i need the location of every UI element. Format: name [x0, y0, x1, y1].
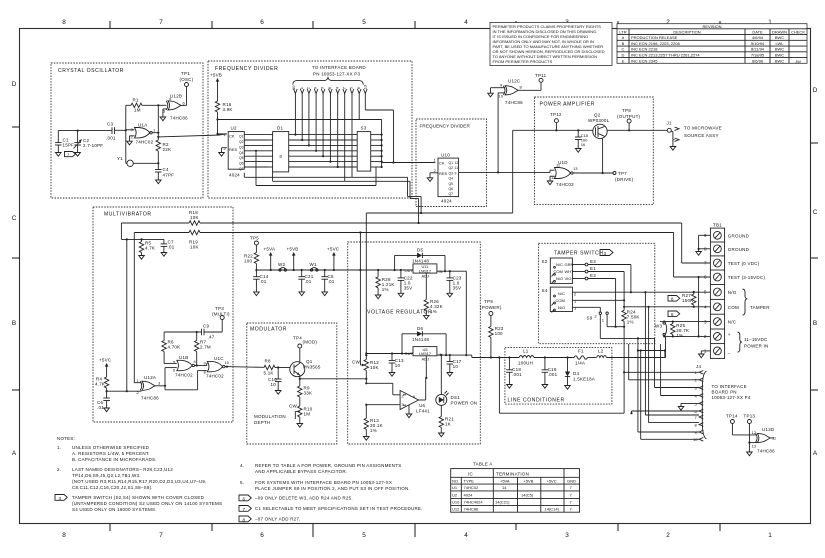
svg-text:2.7-10PF: 2.7-10PF [83, 143, 103, 148]
svg-text:8: 8 [62, 532, 66, 539]
svg-text:14(C14): 14(C14) [545, 507, 560, 512]
svg-text:TO MICROWAVE: TO MICROWAVE [684, 126, 722, 131]
svg-text:+5VB: +5VB [210, 73, 222, 78]
wire R4 node to U12A pin2 [106, 388, 142, 398]
svg-text:1%: 1% [382, 287, 389, 292]
svg-text:LM317: LM317 [419, 351, 432, 356]
svg-text:LWL: LWL [776, 41, 785, 46]
svg-text:DEPTH: DEPTH [254, 420, 270, 425]
MODULATOR section box [247, 323, 337, 444]
svg-text:3: 3 [59, 496, 62, 501]
NOR gate U1D 74HC02 [551, 160, 578, 187]
test point TP5 and R22 [244, 236, 259, 278]
svg-text:COM: COM [556, 298, 565, 303]
svg-text:3.9K: 3.9K [223, 107, 233, 112]
svg-text:Q6: Q6 [449, 187, 454, 191]
bus line TEST 3-15VDC (L-C) with resistor R19 [134, 230, 673, 249]
svg-text:U10: U10 [452, 500, 460, 505]
svg-text:CW: CW [289, 404, 297, 409]
+5V distribution rail [256, 269, 413, 271]
svg-text:2: 2 [666, 532, 670, 539]
svg-text:GND: GND [567, 478, 576, 483]
ground C23 [447, 293, 453, 297]
svg-text:IC: IC [468, 471, 473, 476]
svg-text:Q7: Q7 [239, 167, 244, 171]
wire op-amp pin3 from divider [365, 404, 400, 406]
resistor R13 [364, 405, 383, 437]
svg-text:OUT: OUT [405, 268, 414, 273]
diode D4 TVS [565, 356, 595, 385]
svg-text:74HC02: 74HC02 [556, 182, 574, 187]
test point TP3 [212, 306, 230, 332]
LED DS1 POWER ON [436, 354, 477, 406]
svg-text:(NOT USED R3,R11,R14,R15,R17,: (NOT USED R3,R11,R14,R15,R17,R20,D2,D3,U… [72, 479, 207, 484]
svg-text:W1: W1 [310, 262, 317, 267]
svg-text:11: 11 [455, 166, 459, 170]
svg-text:GRN: GRN [565, 262, 574, 267]
svg-text:4.7K: 4.7K [145, 246, 155, 251]
svg-text:74HC86: 74HC86 [464, 507, 479, 512]
XOR gate U12B 74HC86 [163, 94, 188, 121]
svg-text:3: 3 [565, 532, 569, 539]
svg-text:U1C: U1C [214, 356, 224, 361]
svg-text:B: B [813, 320, 817, 327]
wire U1D output to TP7 node [573, 171, 633, 182]
test point TP13 [744, 414, 758, 453]
svg-text:E1: E1 [590, 266, 596, 271]
svg-text:13: 13 [573, 166, 578, 171]
svg-text:JW: JW [795, 59, 801, 64]
svg-text:13: 13 [362, 84, 367, 89]
svg-text:9: 9 [455, 171, 457, 175]
regulator U5 LM317 [366, 347, 472, 362]
ground op-amp supply [406, 405, 412, 418]
svg-text:TP4: TP4 [293, 336, 302, 341]
wire U1A pin2 to ground [130, 136, 135, 141]
ground C15 [575, 149, 581, 153]
svg-text:U1B: U1B [179, 355, 188, 360]
svg-text:U6: U6 [419, 403, 425, 408]
wire R5 rail down to pin2 net [126, 238, 128, 392]
VOLTAGE REGULATOR section box [348, 242, 481, 444]
wire op-amp output to ADJ node [419, 356, 428, 400]
TABLE A [451, 462, 580, 513]
svg-text:1/4A: 1/4A [575, 361, 585, 366]
svg-text:.001: .001 [548, 372, 558, 377]
wire feedback up to R1 [125, 105, 127, 130]
wire R16 to clock node and pullup rail [216, 112, 382, 168]
jumper S9 [587, 312, 617, 338]
svg-text:N/C: N/C [558, 291, 565, 296]
svg-text:S4: S4 [542, 288, 548, 293]
wire U12B output to TP1 [181, 87, 186, 106]
svg-text:Q1: Q1 [239, 135, 244, 139]
svg-text:LF441: LF441 [416, 409, 430, 414]
svg-text:Q1: Q1 [449, 161, 454, 165]
svg-text:TP14,D6,S9,J5,Q2,L2,TB1,W3.: TP14,D6,S9,J5,Q2,L2,TB1,W3. [72, 473, 141, 478]
svg-text:1M: 1M [304, 412, 311, 417]
node B junction [157, 104, 159, 106]
wires connector pins down to bus [294, 94, 393, 182]
wire U10 output to U1D and branch up to U12C [459, 93, 555, 174]
svg-text:15PF: 15PF [63, 143, 75, 148]
svg-text:U1: U1 [452, 485, 458, 490]
svg-text:FOR SYSTEMS WITH INTERFACE BOA: FOR SYSTEMS WITH INTERFACE BOARD PN 1005… [255, 480, 392, 485]
notes column left [57, 436, 222, 512]
svg-text:U12A: U12A [144, 375, 156, 380]
svg-text:Q2: Q2 [594, 113, 601, 118]
svg-text:D: D [622, 53, 625, 58]
capacitor C17 [447, 354, 462, 373]
svg-text:100: 100 [244, 259, 252, 264]
terminals E2 E1 E3 [572, 259, 596, 280]
TB1 terminal 8 GROUND [699, 245, 750, 253]
connector bracket [293, 78, 364, 85]
resistor R16 [215, 101, 232, 112]
svg-text:C8,C11,C12,C16,C20,J2,S1,S8–S8: C8,C11,C12,C16,C20,J2,S1,S8–S8). [72, 485, 153, 490]
svg-text:DESCRIPTION: DESCRIPTION [673, 29, 700, 34]
svg-text:R1: R1 [133, 98, 139, 103]
inductor L2 [597, 349, 607, 358]
svg-text:1%: 1% [627, 320, 634, 325]
wire U2 RES to ground [222, 148, 227, 153]
ground C22 [398, 293, 404, 297]
diode D5 loop [394, 248, 447, 273]
svg-text:74HC86: 74HC86 [757, 449, 775, 454]
capacitor C14 [253, 274, 269, 292]
MULTIVIBRATOR section box [93, 207, 233, 422]
wires D1 to S3 [289, 135, 358, 167]
capacitor C1 [55, 131, 74, 153]
svg-text:RES: RES [229, 147, 238, 152]
ground C10 [275, 391, 281, 395]
svg-text:CHECK: CHECK [791, 29, 805, 34]
wire R1 to U12B input node [142, 105, 167, 140]
svg-text:LTR: LTR [619, 29, 626, 34]
svg-text:D5: D5 [417, 248, 423, 253]
svg-text:AND APPLICABLE BYPASS CAPACITO: AND APPLICABLE BYPASS CAPACITOR. [255, 469, 347, 474]
ground J1 [670, 147, 676, 151]
svg-text:4: 4 [464, 19, 468, 26]
svg-text:INC ECN 2213,2257 THRU 226: INC ECN 2213,2257 THRU 2261,2274 [631, 53, 700, 58]
XOR gate U12A 74HC86 [137, 375, 162, 401]
svg-text:TEST (0 VDC): TEST (0 VDC) [728, 261, 760, 266]
capacitor C6 [97, 398, 110, 410]
svg-text:INC ECN 2198, 2203, 2208: INC ECN 2198, 2203, 2208 [631, 41, 680, 46]
svg-text:74HC02: 74HC02 [206, 374, 224, 379]
svg-text:TP12: TP12 [550, 112, 562, 117]
wire U12A out to U1B pin6 and U1C pin8 [155, 368, 207, 390]
wire S3 right feedback down [345, 177, 423, 224]
svg-text:22K: 22K [163, 147, 172, 152]
svg-text:U12C: U12C [508, 79, 521, 84]
test point TP11 [535, 73, 547, 82]
test point TP14 [726, 414, 757, 435]
svg-text:+5VA: +5VA [264, 247, 276, 252]
ground C13 [389, 373, 395, 377]
svg-text:N/C: N/C [728, 320, 737, 325]
svg-text:C: C [813, 209, 818, 216]
svg-text:CK: CK [229, 133, 235, 138]
svg-text:47PF: 47PF [163, 173, 175, 178]
svg-text:INC ECN 2218: INC ECN 2218 [631, 47, 658, 52]
svg-text:C4: C4 [163, 167, 169, 172]
svg-text:12: 12 [752, 430, 757, 435]
svg-text:.01: .01 [328, 279, 335, 284]
svg-text:(MULTI): (MULTI) [212, 312, 230, 317]
capacitor C5 [321, 269, 334, 292]
connector J4 [693, 364, 751, 442]
svg-text:MULTIVIBRATOR: MULTIVIBRATOR [104, 212, 152, 218]
ground R13 [364, 437, 370, 441]
svg-text:D4: D4 [573, 371, 579, 376]
svg-text:10K: 10K [370, 365, 379, 370]
wires S2 terminals into mesh [588, 265, 632, 328]
wire S3 output to U10 [382, 161, 436, 163]
svg-text:NO.: NO. [452, 478, 459, 483]
capacitor C4 [155, 167, 174, 180]
svg-text:11–15VDC: 11–15VDC [744, 337, 768, 342]
ground TB1-9 [696, 252, 702, 256]
ground R21 [439, 433, 445, 437]
svg-text:1.: 1. [57, 445, 61, 450]
svg-text:5: 5 [362, 532, 366, 539]
svg-text:CRYSTAL OSCILLATOR: CRYSTAL OSCILLATOR [58, 68, 124, 74]
resistor R1 [131, 98, 142, 113]
svg-text:J1: J1 [667, 121, 672, 126]
svg-text:Q2: Q2 [449, 166, 454, 170]
svg-text:–07 ONLY ADD R27.: –07 ONLY ADD R27. [255, 517, 301, 522]
fuse F1 [574, 349, 588, 366]
svg-text:4024: 4024 [441, 199, 452, 204]
wire top rail node C1/C2/C3 [58, 130, 112, 132]
svg-text:CK: CK [439, 160, 445, 165]
svg-text:E3: E3 [590, 273, 596, 278]
svg-text:TEST (3-15VDC): TEST (3-15VDC) [728, 275, 766, 280]
capacitor C19 [542, 356, 558, 384]
svg-text:(POWER): (POWER) [480, 305, 502, 310]
revision table [617, 24, 807, 64]
svg-text:U12B: U12B [170, 94, 182, 99]
svg-text:MODULATOR: MODULATOR [250, 327, 287, 333]
main output line 11-15V to J1 [513, 129, 668, 131]
svg-text:TP9: TP9 [484, 299, 493, 304]
svg-text:J4: J4 [696, 364, 701, 369]
svg-text:U2: U2 [231, 126, 237, 131]
transistor Q1 PN3565 [290, 359, 321, 377]
TB1 terminal 6 TEST 3-15VDC [674, 233, 766, 281]
svg-text:ADJ: ADJ [422, 274, 430, 279]
svg-text:1M: 1M [134, 108, 141, 113]
svg-text:U1D: U1D [558, 160, 568, 165]
svg-text:.01: .01 [168, 245, 175, 250]
svg-text:TAMPER SWITCH (S2,S4) SHOWN WI: TAMPER SWITCH (S2,S4) SHOWN WITH COVER C… [72, 495, 205, 500]
svg-text:U10: U10 [441, 152, 450, 157]
connector J1 [667, 121, 722, 147]
svg-text:DATE: DATE [752, 29, 763, 34]
resistor R4 [95, 377, 109, 389]
wire modulator feed joins R12 bottom [365, 378, 367, 380]
svg-text:4024: 4024 [464, 493, 474, 498]
svg-text:TABLE A: TABLE A [473, 462, 492, 467]
svg-text:(OSC): (OSC) [180, 77, 194, 82]
ground R10 [297, 424, 303, 428]
svg-text:Q4: Q4 [449, 177, 454, 181]
note flag 7 [65, 152, 76, 158]
svg-text:+: + [728, 332, 731, 337]
capacitor C15 [575, 129, 589, 148]
note flag 8 in notes [239, 516, 251, 522]
svg-text:7/18/95: 7/18/95 [751, 53, 765, 58]
svg-text:LINE CONDITIONER: LINE CONDITIONER [508, 398, 565, 404]
ground R28 [375, 295, 381, 299]
resistor R6 feedback [162, 332, 180, 363]
svg-text:PN 10053-127-XX P3: PN 10053-127-XX P3 [313, 72, 361, 77]
NOR gate U1A 74HC02 [131, 123, 157, 145]
CRYSTAL OSCILLATOR section box [51, 63, 203, 198]
svg-text:(MOD): (MOD) [303, 340, 318, 345]
svg-text:Q7: Q7 [449, 192, 454, 196]
svg-text:BOARD PN: BOARD PN [712, 390, 737, 395]
svg-text:74HC4024: 74HC4024 [464, 500, 484, 505]
ground TP13 line [747, 452, 753, 456]
svg-text:U2: U2 [452, 493, 458, 498]
svg-text:1N4148: 1N4148 [412, 259, 429, 264]
ground U1D [547, 181, 553, 185]
svg-text:Q3: Q3 [239, 145, 244, 149]
ground C5 [322, 292, 328, 296]
ground C2 [75, 153, 81, 157]
TB1 terminal 5 N/O [704, 288, 737, 296]
svg-text:TAMPER SWITCH: TAMPER SWITCH [554, 251, 604, 257]
XOR gate U12C 74HC86 [499, 79, 524, 106]
svg-text:CW: CW [352, 360, 360, 365]
ground TB1-1 [699, 354, 705, 358]
capacitor C23 [447, 270, 462, 293]
svg-text:8: 8 [671, 297, 674, 302]
jumper W1 [310, 262, 319, 271]
wire power feed vertical to power amp [366, 130, 512, 213]
wire U12C pin9 to ground [491, 88, 506, 94]
op-amp U6 LF441 [400, 391, 430, 414]
capacitor C22 [398, 269, 413, 293]
svg-text:7: 7 [243, 507, 246, 512]
svg-text:7: 7 [159, 532, 163, 539]
svg-text:Q4: Q4 [239, 151, 244, 155]
svg-text:TP11: TP11 [535, 73, 547, 78]
svg-text:10: 10 [225, 360, 230, 365]
ground C14 [254, 292, 260, 296]
transistor Q2 WP0300L [588, 113, 610, 139]
svg-text:BWC: BWC [775, 35, 784, 40]
svg-text:1K: 1K [445, 422, 451, 427]
test point TP1 [180, 71, 194, 87]
svg-text:10: 10 [499, 94, 504, 99]
svg-text:Q3: Q3 [449, 171, 454, 175]
svg-text:SOURCE ASSY: SOURCE ASSY [684, 133, 719, 138]
svg-text:8/11/94: 8/11/94 [751, 47, 765, 52]
svg-text:Q6: Q6 [239, 162, 244, 166]
svg-text:U12: U12 [452, 507, 460, 512]
wire U12C output to TP11 [518, 82, 541, 90]
ground U10 RES [427, 178, 433, 182]
svg-text:+5VB: +5VB [524, 478, 534, 483]
capacitor C9 top coupling [164, 324, 222, 340]
svg-text:7: 7 [159, 19, 163, 26]
svg-text:TB1: TB1 [713, 223, 722, 228]
svg-text:N/O: N/O [728, 290, 737, 295]
ground C17 [447, 373, 453, 377]
svg-text:D1: D1 [277, 126, 283, 131]
svg-text:L2: L2 [598, 349, 604, 354]
power +5VC [327, 247, 340, 272]
switch S2 [542, 258, 575, 284]
svg-text:–: – [728, 351, 731, 356]
svg-text:10: 10 [271, 382, 277, 387]
svg-text:B: B [12, 320, 16, 327]
svg-text:S4 USED ONLY ON 16000 SYSTEMS.: S4 USED ONLY ON 16000 SYSTEMS. [72, 507, 157, 512]
wire U1B out to U1C pin9 [195, 363, 208, 366]
svg-text:6: 6 [671, 312, 674, 317]
svg-text:–09 ONLY DELETE W3, ADD R24 AN: –09 ONLY DELETE W3, ADD R24 AND R25. [255, 496, 353, 501]
switch S4 [542, 287, 578, 312]
main power rail 11-15VDC [472, 336, 666, 357]
vertical feed B (test line from L-C) [359, 231, 361, 365]
svg-text:14(C5): 14(C5) [521, 493, 534, 498]
capacitor C2 variable [74, 131, 104, 153]
svg-text:ADJ: ADJ [422, 356, 430, 361]
svg-text:35V: 35V [453, 286, 462, 291]
svg-text:4.7K: 4.7K [95, 382, 105, 387]
svg-text:1: 1 [768, 532, 772, 539]
svg-text:C3: C3 [107, 122, 113, 127]
svg-text:74HC86: 74HC86 [505, 100, 523, 105]
svg-text:Q5: Q5 [449, 182, 454, 186]
svg-text:BWC: BWC [775, 58, 784, 63]
svg-text:FREQUENCY DIVIDER: FREQUENCY DIVIDER [420, 124, 471, 129]
svg-text:E: E [622, 58, 625, 63]
svg-text:MODULATION: MODULATION [254, 414, 286, 419]
svg-text:PRODUCTION RELEASE: PRODUCTION RELEASE [631, 35, 678, 40]
svg-text:W3: W3 [655, 324, 662, 329]
wire node to U1A pin3 [126, 129, 135, 131]
svg-text:8: 8 [243, 517, 246, 522]
interface connector header text [312, 65, 366, 77]
wire L-B left end down to R5/C7 [121, 223, 163, 239]
test point TP12 [550, 112, 562, 131]
TB1 terminal 1 minus [701, 347, 731, 356]
capacitor C7 [161, 239, 175, 252]
svg-text:10K: 10K [190, 215, 199, 220]
svg-text:U12D: U12D [762, 427, 775, 432]
ground J4 pin5 [678, 407, 684, 411]
svg-text:WP0300L: WP0300L [588, 118, 610, 123]
svg-text:FREQUENCY DIVIDER: FREQUENCY DIVIDER [215, 66, 278, 72]
ground R5 [139, 256, 145, 260]
svg-text:5: 5 [704, 290, 707, 295]
svg-text:100: 100 [495, 331, 503, 336]
svg-text:74HC86: 74HC86 [141, 396, 159, 401]
svg-text:10K: 10K [190, 245, 199, 250]
svg-text:6: 6 [260, 532, 264, 539]
svg-text:N/C: N/C [556, 262, 563, 267]
ground U2 RES [219, 153, 225, 157]
FREQUENCY DIVIDER section box [208, 61, 412, 198]
svg-text:.47: .47 [208, 335, 215, 340]
svg-text:150K: 150K [682, 298, 693, 303]
svg-text:6: 6 [243, 496, 246, 501]
svg-text:N/O: N/O [556, 276, 563, 281]
